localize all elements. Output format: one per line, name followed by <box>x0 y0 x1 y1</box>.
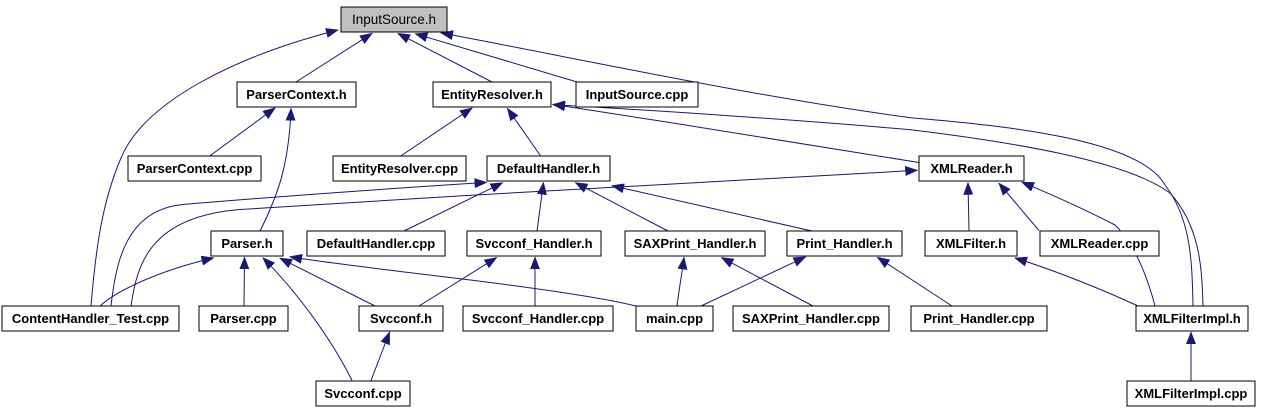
node Svcconf.cpp <box>316 381 410 406</box>
edge XMLFilterImpl.h -> EntityResolver.h <box>553 105 1203 306</box>
edge ContentHandler_Test.cpp -> InputSource.h <box>91 30 338 306</box>
edge XMLFilterImpl.h -> XMLFilter.h <box>1015 258 1138 306</box>
edge main.cpp -> Parser.h <box>290 257 636 306</box>
node XMLFilterImpl.cpp <box>1127 381 1255 406</box>
edge main.cpp -> Print_Handler.h <box>701 257 806 306</box>
svg-text:EntityResolver.h: EntityResolver.h <box>441 87 543 102</box>
edge EntityResolver.h -> InputSource.h <box>398 33 492 82</box>
edge XMLFilter.h -> XMLReader.h <box>968 183 969 231</box>
svg-text:Parser.cpp: Parser.cpp <box>210 311 277 326</box>
node Print_Handler.h <box>787 231 902 256</box>
node XMLReader.h <box>919 156 1024 181</box>
edge EntityResolver.cpp -> EntityResolver.h <box>400 108 472 157</box>
edge XMLFilterImpl.cpp -> XMLFilterImpl.h <box>1190 332 1192 380</box>
svg-text:Svcconf_Handler.h: Svcconf_Handler.h <box>475 236 592 251</box>
node EntityResolver.cpp <box>333 156 466 181</box>
node ParserContext.cpp <box>128 156 261 181</box>
edge ContentHandler_Test.cpp -> Parser.h <box>100 258 214 306</box>
edge Parser.cpp -> Parser.h <box>243 257 246 306</box>
node EntityResolver.h <box>433 82 551 107</box>
svg-text:ParserContext.cpp: ParserContext.cpp <box>137 161 253 176</box>
svg-text:Svcconf.h: Svcconf.h <box>370 311 432 326</box>
svg-text:XMLReader.cpp: XMLReader.cpp <box>1051 236 1149 251</box>
node XMLFilter.h <box>925 231 1017 256</box>
edge ContentHandler_Test.cpp -> DefaultHandler.h <box>111 182 487 306</box>
node Svcconf.h <box>359 306 443 331</box>
svg-text:SAXPrint_Handler.cpp: SAXPrint_Handler.cpp <box>742 311 880 326</box>
node ParserContext.h <box>237 82 356 107</box>
node SAXPrint_Handler.h <box>625 231 765 256</box>
node Svcconf_Handler.h <box>467 231 601 256</box>
node ContentHandler_Test.cpp <box>2 306 179 331</box>
svg-text:main.cpp: main.cpp <box>646 311 703 326</box>
svg-text:DefaultHandler.cpp: DefaultHandler.cpp <box>317 236 436 251</box>
edge ContentHandler_Test.cpp -> XMLReader.h <box>131 170 917 306</box>
edge ParserContext.h -> InputSource.h <box>296 33 372 82</box>
svg-text:XMLFilterImpl.cpp: XMLFilterImpl.cpp <box>1135 386 1248 401</box>
edge InputSource.cpp -> InputSource.h <box>416 34 578 82</box>
edge SAXPrint_Handler.cpp -> SAXPrint_Handler.h <box>722 258 814 306</box>
edge Svcconf.cpp -> Parser.h <box>263 258 352 381</box>
svg-text:InputSource.h: InputSource.h <box>352 12 436 27</box>
edge Svcconf.cpp -> Svcconf.h <box>371 332 390 380</box>
node Parser.cpp <box>199 306 288 331</box>
edge Print_Handler.h -> DefaultHandler.h <box>612 186 812 231</box>
node DefaultHandler.cpp <box>307 231 445 256</box>
svg-text:XMLReader.h: XMLReader.h <box>930 161 1012 176</box>
edge Parser.h -> ParserContext.h <box>260 109 291 232</box>
svg-text:InputSource.cpp: InputSource.cpp <box>586 87 689 102</box>
node SAXPrint_Handler.cpp <box>733 306 889 331</box>
node XMLReader.cpp <box>1040 231 1159 256</box>
edge DefaultHandler.cpp -> DefaultHandler.h <box>404 183 503 231</box>
node XMLFilterImpl.h <box>1136 306 1248 331</box>
node Print_Handler.cpp <box>911 306 1047 331</box>
edge XMLFilterImpl.h -> InputSource.h <box>441 33 1193 306</box>
svg-text:ParserContext.h: ParserContext.h <box>246 87 346 102</box>
svg-text:Parser.h: Parser.h <box>221 236 272 251</box>
edge DefaultHandler.h -> EntityResolver.h <box>508 109 542 157</box>
svg-text:EntityResolver.cpp: EntityResolver.cpp <box>341 161 458 176</box>
svg-text:XMLFilterImpl.h: XMLFilterImpl.h <box>1143 311 1241 326</box>
edge XMLFilterImpl.h -> XMLReader.h <box>1022 182 1155 306</box>
edge XMLReader.h -> EntityResolver.h <box>553 104 919 162</box>
edge Print_Handler.cpp -> Print_Handler.h <box>878 257 953 306</box>
edge Svcconf_Handler.h -> DefaultHandler.h <box>537 183 544 231</box>
svg-text:SAXPrint_Handler.h: SAXPrint_Handler.h <box>634 236 757 251</box>
svg-text:Print_Handler.h: Print_Handler.h <box>796 236 892 251</box>
svg-text:ContentHandler_Test.cpp: ContentHandler_Test.cpp <box>12 311 169 326</box>
svg-text:Svcconf_Handler.cpp: Svcconf_Handler.cpp <box>472 311 604 326</box>
svg-text:XMLFilter.h: XMLFilter.h <box>936 236 1006 251</box>
edge Svcconf.h -> Svcconf_Handler.h <box>419 258 497 306</box>
edge Svcconf.h -> Parser.h <box>280 258 375 306</box>
svg-text:Svcconf.cpp: Svcconf.cpp <box>324 386 401 401</box>
node Svcconf_Handler.cpp <box>463 306 613 331</box>
edge main.cpp -> SAXPrint_Handler.h <box>677 257 684 306</box>
node InputSource.cpp <box>576 82 698 107</box>
node Parser.h <box>211 231 283 256</box>
node InputSource.h <box>341 7 447 32</box>
edge ParserContext.cpp -> ParserContext.h <box>209 108 275 157</box>
edge XMLReader.cpp -> XMLReader.h <box>999 183 1039 230</box>
svg-text:Print_Handler.cpp: Print_Handler.cpp <box>923 311 1034 326</box>
node DefaultHandler.h <box>487 156 610 181</box>
node main.cpp <box>636 306 713 331</box>
edge SAXPrint_Handler.h -> DefaultHandler.h <box>576 183 669 231</box>
edge Svcconf_Handler.cpp -> Svcconf_Handler.h <box>534 257 536 306</box>
svg-text:DefaultHandler.h: DefaultHandler.h <box>497 161 600 176</box>
